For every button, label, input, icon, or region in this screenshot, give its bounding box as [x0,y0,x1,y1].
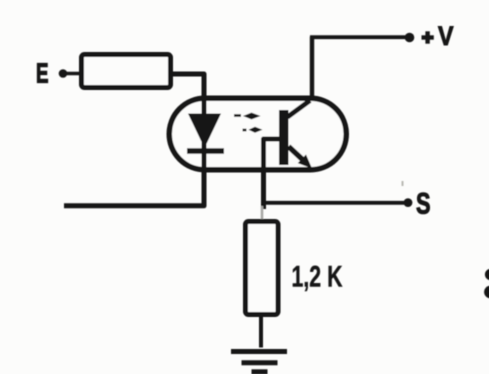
svg-text:E: E [36,57,49,88]
svg-text:1,2 K: 1,2 K [292,261,343,294]
svg-text:V: V [438,21,454,51]
svg-text:S: S [416,188,431,221]
